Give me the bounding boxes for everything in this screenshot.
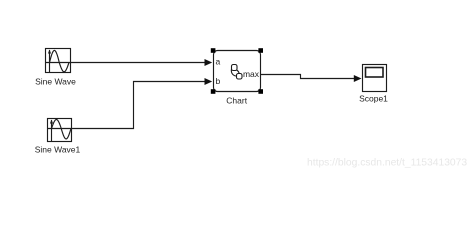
selection handle bottom-left [211, 89, 216, 94]
port label a [216, 57, 221, 67]
block Chart U1 [214, 51, 261, 92]
wire Sine Wave to Chart port a [71, 59, 213, 66]
svg-text:Sine Wave1: Sine Wave1 [35, 145, 81, 155]
svg-text:Chart: Chart [226, 96, 247, 106]
watermark https://blog.csdn.net/t_1153413073 [307, 158, 467, 169]
wire Sine Wave1 to Chart port b [72, 78, 213, 129]
wire Chart to Scope1 [261, 75, 362, 83]
port label max [243, 69, 260, 79]
block Sine Wave [46, 49, 71, 73]
svg-text:https://blog.csdn.net/t_115341: https://blog.csdn.net/t_1153413073 [307, 158, 467, 169]
block Sine Wave1 [48, 119, 72, 142]
stateflow icon [231, 65, 242, 80]
label Scope1 [359, 94, 388, 104]
selection handle top-right [258, 48, 263, 53]
svg-text:b: b [216, 76, 221, 86]
label Sine Wave [35, 77, 76, 87]
svg-text:Sine Wave: Sine Wave [35, 77, 76, 87]
selection handle top-left [211, 48, 216, 53]
selection handle bottom-right [258, 89, 263, 94]
port label b [216, 76, 221, 86]
svg-text:max: max [243, 69, 260, 79]
svg-text:a: a [216, 57, 221, 67]
label Chart [226, 96, 247, 106]
label Sine Wave1 [35, 145, 81, 155]
block Scope1 [363, 65, 387, 92]
svg-text:Scope1: Scope1 [359, 94, 388, 104]
